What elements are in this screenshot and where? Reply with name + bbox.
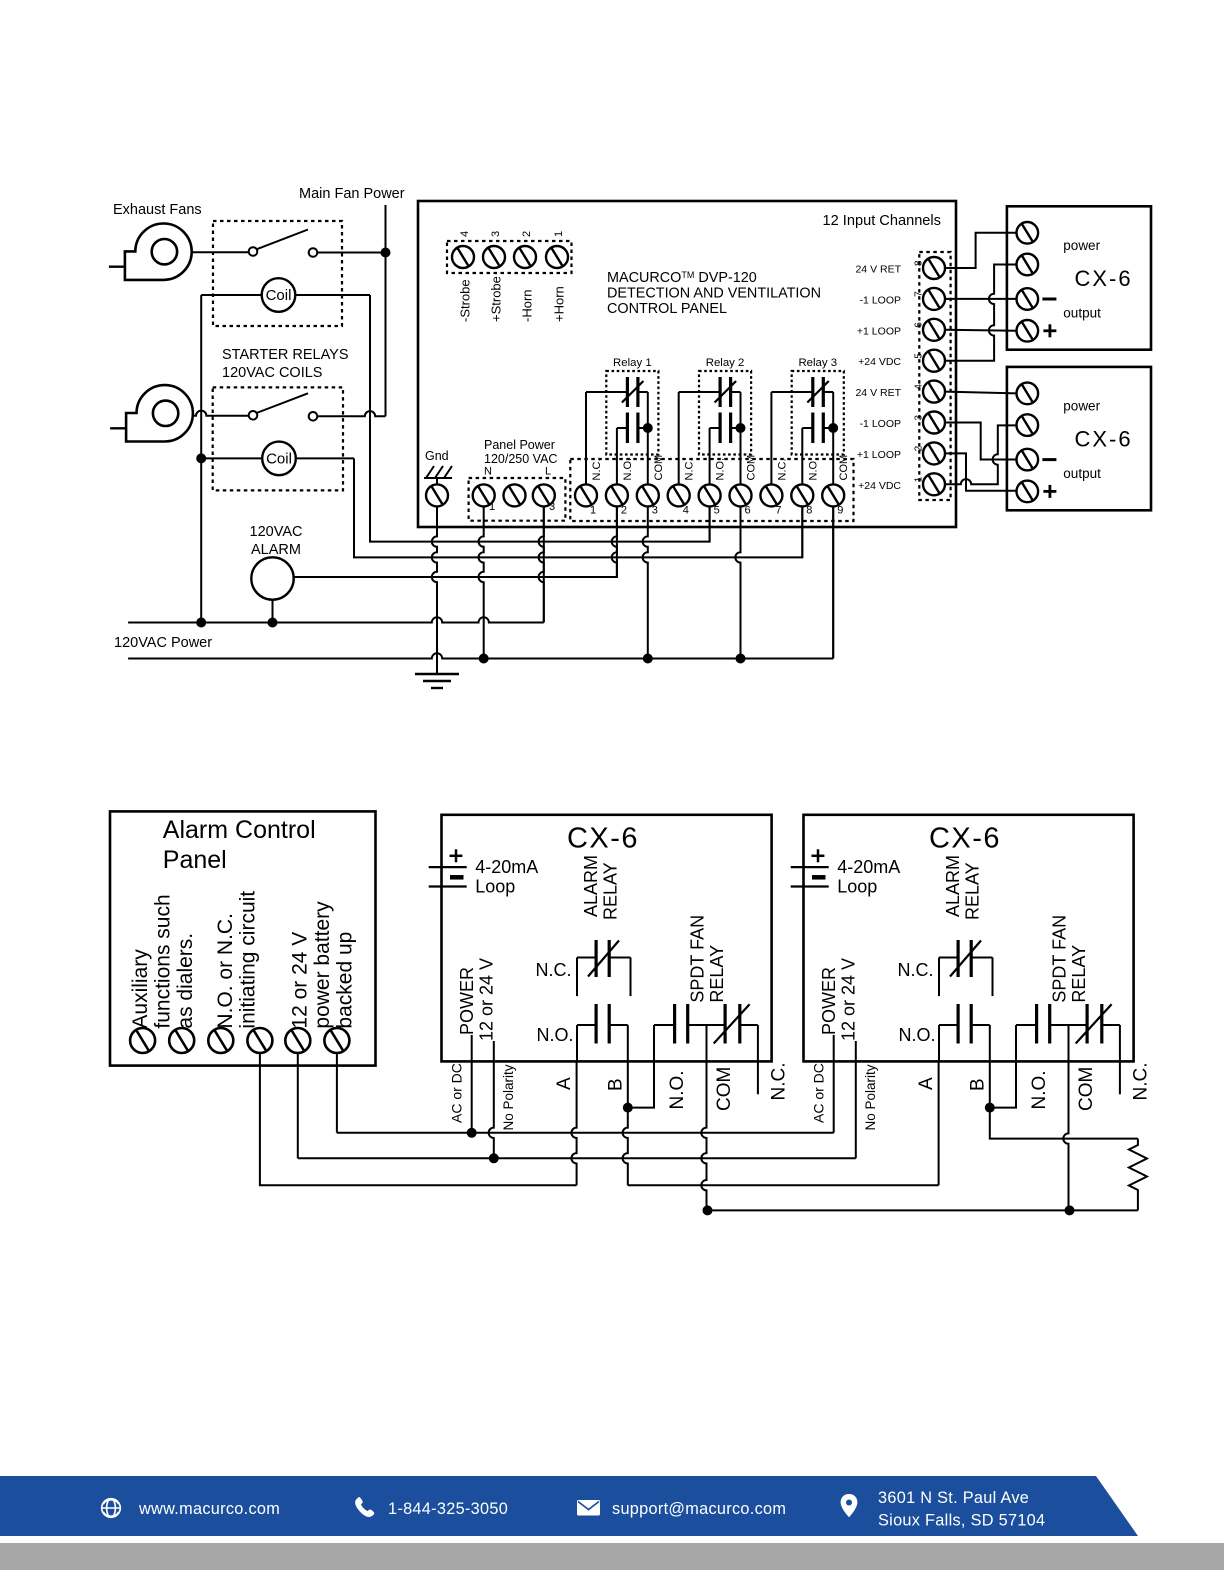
svg-text:1: 1 — [489, 501, 495, 513]
svg-text:3: 3 — [652, 505, 658, 517]
svg-text:4: 4 — [459, 231, 471, 237]
svg-text:as dialers.: as dialers. — [174, 933, 197, 1029]
svg-text:CX-6: CX-6 — [567, 822, 639, 854]
svg-text:4-20mA: 4-20mA — [837, 857, 900, 877]
svg-text:ALARM: ALARM — [581, 855, 601, 917]
svg-text:RELAY: RELAY — [963, 862, 983, 920]
svg-text:-Horn: -Horn — [520, 289, 535, 322]
svg-text:N.O.: N.O. — [898, 1025, 935, 1045]
svg-text:+24 VDC: +24 VDC — [858, 480, 901, 492]
svg-text:Panel: Panel — [163, 846, 227, 874]
svg-text:output: output — [1063, 466, 1101, 481]
svg-text:No Polarity: No Polarity — [501, 1064, 516, 1130]
svg-text:Relay 1: Relay 1 — [613, 357, 652, 369]
svg-text:6: 6 — [745, 505, 751, 517]
svg-text:Coil: Coil — [266, 287, 292, 304]
svg-text:3601 N St. Paul Ave: 3601 N St. Paul Ave — [878, 1489, 1029, 1507]
svg-text:3: 3 — [490, 231, 502, 237]
svg-text:N.O.: N.O. — [1029, 1070, 1050, 1109]
svg-text:COM: COM — [714, 1067, 735, 1111]
svg-text:120VAC COILS: 120VAC COILS — [222, 365, 322, 381]
svg-text:CONTROL PANEL: CONTROL PANEL — [607, 301, 727, 317]
svg-text:Relay 3: Relay 3 — [798, 357, 837, 369]
svg-text:1: 1 — [914, 476, 925, 482]
svg-text:www.macurco.com: www.macurco.com — [138, 1500, 280, 1518]
svg-text:N.C.: N.C. — [684, 459, 696, 481]
svg-text:AC or DC: AC or DC — [449, 1063, 465, 1123]
svg-text:initiating circuit: initiating circuit — [237, 891, 260, 1029]
svg-text:2: 2 — [621, 505, 627, 517]
svg-text:Loop: Loop — [475, 877, 515, 897]
svg-text:power battery: power battery — [311, 901, 334, 1029]
svg-text:output: output — [1063, 305, 1101, 320]
svg-text:N.O.: N.O. — [536, 1025, 573, 1045]
svg-text:RELAY: RELAY — [601, 862, 621, 920]
svg-text:No Polarity: No Polarity — [863, 1064, 878, 1130]
svg-text:N.O.: N.O. — [667, 1070, 688, 1109]
svg-text:6: 6 — [914, 322, 925, 328]
svg-text:SPDT FAN: SPDT FAN — [1050, 915, 1070, 1003]
svg-text:CX-6: CX-6 — [929, 822, 1001, 854]
svg-text:A: A — [554, 1077, 575, 1090]
svg-text:12 or 24 V: 12 or 24 V — [477, 958, 497, 1041]
svg-text:support@macurco.com: support@macurco.com — [612, 1500, 786, 1518]
svg-text:2: 2 — [521, 231, 533, 237]
svg-text:functions such: functions such — [151, 894, 174, 1028]
svg-text:7: 7 — [775, 505, 781, 517]
svg-text:COM: COM — [838, 455, 850, 481]
svg-text:N.O.: N.O. — [807, 458, 819, 481]
svg-text:N.C.: N.C. — [1131, 1063, 1152, 1101]
svg-text:Loop: Loop — [837, 877, 877, 897]
svg-text:4: 4 — [914, 384, 925, 390]
svg-text:N.O.: N.O. — [715, 458, 727, 481]
svg-text:Exhaust Fans: Exhaust Fans — [113, 202, 202, 218]
svg-text:5: 5 — [714, 505, 720, 517]
svg-text:+1 LOOP: +1 LOOP — [857, 449, 901, 461]
svg-text:ALARM: ALARM — [943, 855, 963, 917]
svg-text:Alarm Control: Alarm Control — [163, 816, 316, 844]
svg-text:RELAY: RELAY — [1069, 945, 1089, 1003]
svg-text:+Horn: +Horn — [552, 286, 567, 322]
svg-text:DETECTION AND VENTILATION: DETECTION AND VENTILATION — [607, 286, 821, 302]
svg-text:N.C.: N.C. — [536, 960, 572, 980]
svg-text:power: power — [1063, 399, 1100, 414]
svg-text:1-844-325-3050: 1-844-325-3050 — [388, 1500, 508, 1518]
svg-text:Auxiliary: Auxiliary — [129, 949, 152, 1029]
svg-text:-1 LOOP: -1 LOOP — [860, 294, 901, 306]
svg-text:AC or DC: AC or DC — [811, 1063, 827, 1123]
svg-text:+1 LOOP: +1 LOOP — [857, 325, 901, 337]
svg-text:Coil: Coil — [266, 450, 292, 467]
svg-text:N: N — [484, 466, 492, 478]
svg-text:120VAC Power: 120VAC Power — [114, 635, 212, 651]
svg-text:3: 3 — [914, 415, 925, 421]
svg-text:8: 8 — [914, 260, 925, 266]
svg-text:3: 3 — [549, 501, 555, 513]
svg-text:Sioux Falls, SD 57104: Sioux Falls, SD 57104 — [878, 1512, 1045, 1530]
svg-text:POWER: POWER — [819, 967, 839, 1035]
svg-text:COM: COM — [1076, 1067, 1097, 1111]
svg-text:24 V RET: 24 V RET — [855, 264, 901, 276]
svg-text:1: 1 — [553, 231, 565, 237]
svg-text:120/250 VAC: 120/250 VAC — [484, 452, 557, 466]
svg-text:A: A — [916, 1077, 937, 1090]
svg-text:24 V RET: 24 V RET — [855, 387, 901, 399]
svg-text:ALARM: ALARM — [251, 542, 301, 558]
svg-text:B: B — [968, 1078, 989, 1091]
svg-text:5: 5 — [914, 353, 925, 359]
svg-text:backed up: backed up — [334, 932, 357, 1029]
svg-text:N.C.: N.C. — [591, 459, 603, 481]
svg-text:12 Input Channels: 12 Input Channels — [823, 213, 941, 229]
svg-text:12 or 24 V: 12 or 24 V — [839, 958, 859, 1041]
svg-text:L: L — [545, 466, 551, 478]
svg-text:2: 2 — [914, 445, 925, 451]
svg-text:9: 9 — [837, 505, 843, 517]
svg-text:4: 4 — [683, 505, 689, 517]
svg-text:CX-6: CX-6 — [1074, 266, 1132, 291]
svg-text:1: 1 — [590, 505, 596, 517]
svg-text:STARTER RELAYS: STARTER RELAYS — [222, 347, 349, 363]
svg-text:12 or 24 V: 12 or 24 V — [289, 932, 312, 1029]
svg-text:+24 VDC: +24 VDC — [858, 356, 901, 368]
svg-text:COM: COM — [746, 455, 758, 481]
svg-text:Relay 2: Relay 2 — [706, 357, 745, 369]
svg-text:Panel Power: Panel Power — [484, 438, 555, 452]
svg-text:COM: COM — [653, 455, 665, 481]
svg-text:power: power — [1063, 238, 1100, 253]
svg-text:N.C.: N.C. — [769, 1063, 790, 1101]
svg-text:8: 8 — [806, 505, 812, 517]
svg-text:B: B — [606, 1078, 627, 1091]
svg-text:CX-6: CX-6 — [1074, 427, 1132, 452]
svg-text:-Strobe: -Strobe — [458, 279, 473, 322]
svg-text:N.O. or N.C.: N.O. or N.C. — [214, 913, 237, 1029]
svg-text:7: 7 — [914, 291, 925, 297]
svg-text:Main Fan Power: Main Fan Power — [299, 186, 405, 202]
svg-text:N.O.: N.O. — [622, 458, 634, 481]
svg-text:120VAC: 120VAC — [250, 524, 303, 540]
svg-text:+Strobe: +Strobe — [489, 276, 504, 322]
svg-text:4-20mA: 4-20mA — [475, 857, 538, 877]
svg-text:POWER: POWER — [457, 967, 477, 1035]
svg-text:-1 LOOP: -1 LOOP — [860, 418, 901, 430]
svg-text:SPDT FAN: SPDT FAN — [688, 915, 708, 1003]
svg-text:N.C.: N.C. — [776, 459, 788, 481]
svg-text:Gnd: Gnd — [425, 449, 449, 463]
svg-text:N.C.: N.C. — [898, 960, 934, 980]
svg-text:RELAY: RELAY — [707, 945, 727, 1003]
